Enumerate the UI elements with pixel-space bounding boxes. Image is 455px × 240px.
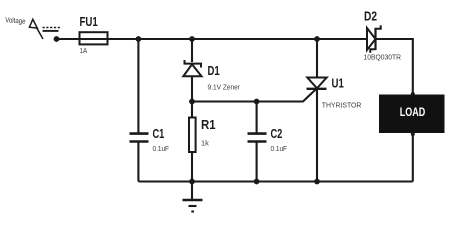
wire: C1 branch upper <box>137 39 139 133</box>
svg-text:0.1uF: 0.1uF <box>153 144 170 153</box>
input terminal dashed line <box>43 27 61 29</box>
resistor R1 <box>189 118 216 153</box>
svg-text:D1: D1 <box>208 64 220 78</box>
wire: D1 branch upper <box>191 39 193 62</box>
wire: U1 anode <box>316 39 318 78</box>
svg-text:LOAD: LOAD <box>400 105 426 119</box>
svg-text:C1: C1 <box>153 127 165 141</box>
node junction C2/gate <box>254 99 260 105</box>
svg-text:THYRISTOR: THYRISTOR <box>322 101 362 110</box>
wire: C2 branch upper <box>256 102 258 134</box>
node junction D1/top <box>189 36 195 42</box>
node LOAD top <box>411 92 415 96</box>
wire: D2 to corner <box>376 38 413 40</box>
svg-text:1k: 1k <box>201 138 209 147</box>
wire: R1 top lead <box>191 102 193 119</box>
svg-text:Voltage: Voltage <box>5 15 26 25</box>
diode D2 schottky <box>364 10 402 62</box>
node junction C1/top <box>136 36 142 42</box>
wire: U1 cathode down <box>316 89 318 182</box>
wire: gate diagonal to U1 <box>303 88 318 102</box>
svg-text:D2: D2 <box>364 10 377 24</box>
fuse FU1 <box>80 15 108 55</box>
wire: C1 branch lower <box>137 142 139 182</box>
node LOAD bottom <box>411 132 415 136</box>
svg-text:FU1: FU1 <box>80 15 98 29</box>
wire: bottom rail <box>138 180 412 182</box>
block LOAD <box>379 95 445 134</box>
wire: input to fuse <box>57 38 81 40</box>
svg-text:9.1V Zener: 9.1V Zener <box>208 82 241 91</box>
node junction U1/top <box>314 36 320 42</box>
node: input dot <box>54 36 60 42</box>
svg-text:1A: 1A <box>80 46 88 55</box>
node junction gnd/rail <box>189 179 195 185</box>
thyristor U1 <box>307 77 362 110</box>
wire: LOAD to bottom rail <box>412 133 414 182</box>
ground <box>183 182 203 212</box>
svg-text:0.1uF: 0.1uF <box>271 144 288 153</box>
wire: top rail fuse to D2 <box>108 38 369 40</box>
capacitor C1 <box>130 127 170 153</box>
capacitor C2 <box>248 127 288 153</box>
svg-text:R1: R1 <box>201 118 216 132</box>
svg-text:C2: C2 <box>271 127 283 141</box>
svg-text:10BQ030TR: 10BQ030TR <box>364 53 402 62</box>
diode D1 zener <box>183 60 240 91</box>
wire: R1 bottom lead <box>191 152 193 182</box>
wire: gate horizontal <box>192 100 304 102</box>
wire: D1 to gate node <box>191 76 193 101</box>
node junction C2/rail <box>254 179 260 185</box>
wire: corner down to LOAD <box>412 38 414 95</box>
node junction U1/rail <box>314 179 320 185</box>
input probe symbol <box>29 19 43 39</box>
input terminal solid line <box>43 30 59 32</box>
wire: C2 branch lower <box>256 142 258 182</box>
node junction zener/R1/gate <box>189 99 195 105</box>
svg-text:U1: U1 <box>332 77 344 91</box>
